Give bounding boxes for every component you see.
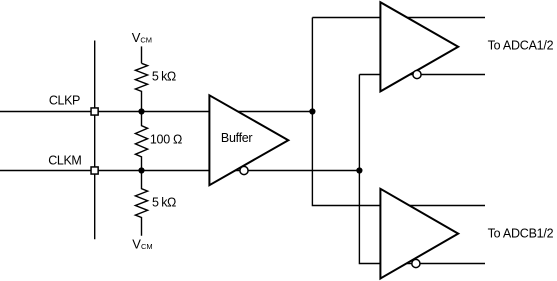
svg-text:Buffer: Buffer [221,131,253,145]
wire off-page vertical bus [94,41,96,240]
wire top amp input P [312,17,380,19]
buffer U1 inverting bubble [240,166,248,174]
wire top amp output P [400,17,485,19]
svg-text:5 kΩ: 5 kΩ [152,70,176,84]
amplifier B (bottom) body [380,189,458,279]
terminal square CLKP [91,108,98,115]
resistor R2 100 ohm [135,112,147,171]
junction dot CLKM node [138,167,144,173]
wire net M vertical to bottom amp [359,75,380,264]
junction dot net M [356,167,362,173]
svg-text:100 Ω: 100 Ω [150,132,183,146]
svg-text:5 kΩ: 5 kΩ [152,196,176,210]
wire CLKP input line [0,111,211,113]
resistor R3 5k bottom [135,171,147,236]
svg-text:VCM: VCM [132,30,152,45]
resistor R1 5k top [135,63,147,111]
wire net P vertical to bottom amp [312,18,380,206]
svg-text:CLKP: CLKP [49,94,81,108]
svg-text:To ADCB1/2: To ADCB1/2 [488,226,554,240]
amplifier B inverting bubble [412,259,420,267]
wire bottom amp output P [402,205,485,207]
terminal square CLKM [91,167,98,174]
wire top amp output M [408,74,485,76]
wire buffer output M [211,170,359,172]
amplifier A inverting bubble [413,70,421,78]
wire CLKM input line [0,170,211,172]
wire top amp input M [359,74,380,76]
buffer U1 body [209,95,288,185]
svg-text:VCM: VCM [132,236,152,251]
wire VCM top stem [141,46,143,63]
amplifier A (top) body [380,2,458,91]
junction dot CLKP node [138,108,144,114]
wire bottom amp output M [407,263,485,265]
svg-text:To ADCA1/2: To ADCA1/2 [488,38,554,52]
svg-text:CLKM: CLKM [48,153,82,167]
junction dot net P [309,108,315,114]
wire buffer output P [211,111,312,113]
